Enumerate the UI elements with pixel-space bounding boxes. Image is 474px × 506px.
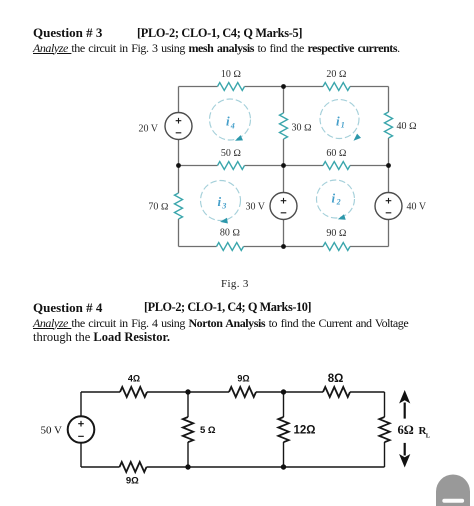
- svg-text:40 V: 40 V: [407, 202, 427, 213]
- svg-text:12Ω: 12Ω: [294, 425, 316, 437]
- svg-text:10 Ω: 10 Ω: [221, 69, 242, 80]
- svg-text:2: 2: [336, 197, 341, 206]
- svg-text:20 Ω: 20 Ω: [326, 69, 347, 80]
- svg-text:8Ω: 8Ω: [328, 373, 344, 385]
- svg-text:L: L: [426, 433, 431, 440]
- svg-text:3: 3: [221, 201, 226, 210]
- svg-text:i: i: [332, 191, 336, 206]
- svg-text:4Ω: 4Ω: [128, 374, 140, 384]
- svg-text:1: 1: [341, 120, 345, 129]
- svg-text:50 Ω: 50 Ω: [221, 148, 242, 159]
- svg-text:20 V: 20 V: [138, 124, 158, 135]
- svg-text:9Ω: 9Ω: [237, 374, 249, 384]
- svg-text:9Ω: 9Ω: [126, 476, 139, 487]
- svg-text:i: i: [226, 114, 230, 129]
- svg-text:i: i: [218, 194, 222, 209]
- svg-text:5 Ω: 5 Ω: [200, 425, 216, 436]
- svg-text:6Ω: 6Ω: [398, 423, 414, 437]
- svg-text:30 V: 30 V: [245, 202, 265, 213]
- svg-text:i: i: [336, 114, 340, 129]
- svg-text:4: 4: [230, 121, 235, 130]
- svg-text:30 Ω: 30 Ω: [292, 123, 313, 134]
- svg-text:90 Ω: 90 Ω: [326, 228, 347, 239]
- svg-text:Fig. 3: Fig. 3: [221, 278, 249, 290]
- svg-text:40 Ω: 40 Ω: [397, 121, 418, 132]
- svg-text:80 Ω: 80 Ω: [220, 228, 241, 239]
- svg-text:70 Ω: 70 Ω: [148, 202, 169, 213]
- svg-text:60 Ω: 60 Ω: [326, 148, 347, 159]
- svg-text:50 V: 50 V: [41, 425, 63, 437]
